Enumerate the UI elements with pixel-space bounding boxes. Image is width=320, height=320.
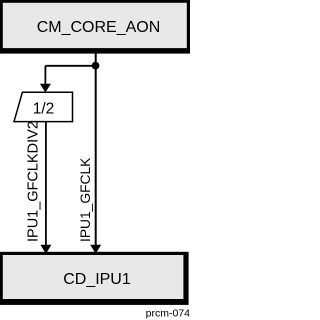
svg-text:IPU1_GFCLK: IPU1_GFCLK (78, 157, 93, 242)
block CD_IPU1 border and shadow (0, 252, 189, 305)
svg-text:CM_CORE_AON: CM_CORE_AON (37, 19, 161, 36)
svg-text:CD_IPU1: CD_IPU1 (63, 271, 131, 288)
arrowhead into CD_IPU1 (left) (40, 245, 51, 254)
wire from divider to CD_IPU1 (45, 122, 47, 246)
arrowhead into divider (40, 84, 51, 93)
svg-text:1/2: 1/2 (33, 101, 55, 118)
block CM_CORE_AON (3, 3, 187, 48)
svg-text:IPU1_GFCLKDIV2: IPU1_GFCLKDIV2 (26, 121, 42, 242)
divider 1/2 (14, 92, 73, 121)
wire vertical into divider (44, 66, 46, 85)
wire horizontal branch (45, 65, 95, 67)
junction node (92, 62, 100, 70)
block CD_IPU1 (3, 255, 184, 299)
arrowhead into CD_IPU1 (right) (90, 245, 101, 254)
wire main vertical from CM_CORE_AON to CD_IPU1 (95, 50, 97, 246)
block CM_CORE_AON border and shadow (0, 0, 190, 54)
svg-text:prcm-074: prcm-074 (146, 307, 190, 319)
